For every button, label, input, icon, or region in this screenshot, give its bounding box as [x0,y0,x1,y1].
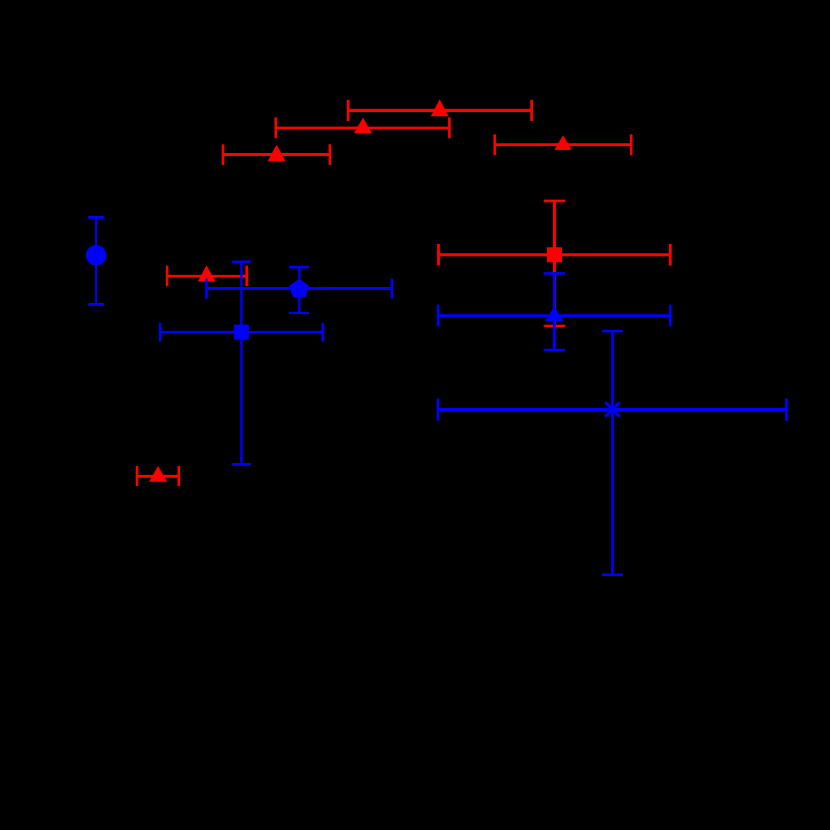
red errorbar point B (triangle, x-error) [276,117,450,138]
red errorbar point D (triangle, x-error) [495,134,632,155]
blue errorbar point K (triangle, x-error and y-error) [438,273,670,350]
blue errorbar point J (square, x-error and y-error) [160,262,323,465]
red errorbar point A (triangle, x-error) [348,99,531,121]
blue errorbar point I (pentagon, x-error and y-error) [207,267,392,313]
red errorbar point G (square, x-error and y-error) [439,201,671,326]
blue errorbar point L (x marker, x-error and y-error) [438,331,787,575]
red errorbar point F (triangle, x-error) [137,466,179,486]
red errorbar point C (triangle, x-error) [223,144,330,165]
blue errorbar point H (circle, y-error only) [86,217,106,304]
red errorbar point E (triangle, x-error) [167,265,247,286]
